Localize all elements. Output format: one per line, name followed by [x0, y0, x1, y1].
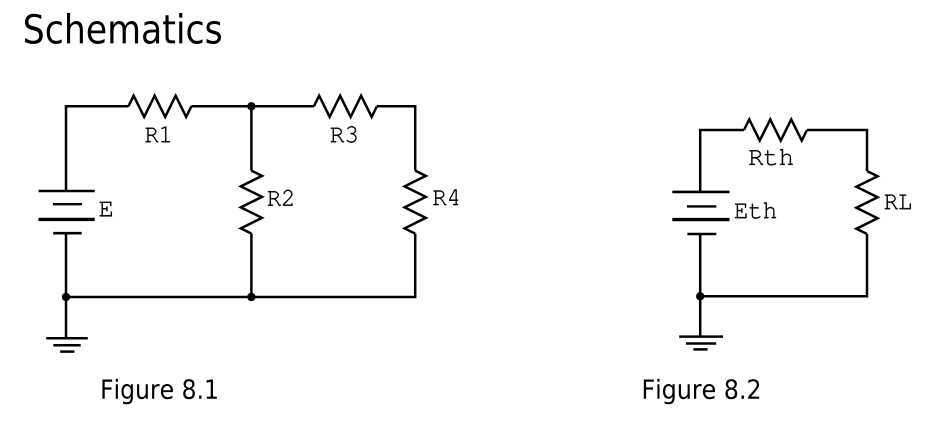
wire: Rth to top-right corner down to RL — [807, 130, 867, 171]
wire: Fig8.1 top-left segment — [66, 106, 128, 191]
label Rth — [749, 149, 793, 165]
wire: RL to bottom-right corner — [700, 234, 867, 296]
resistor R3 — [314, 96, 377, 117]
label R2 — [268, 190, 293, 206]
label RL — [885, 195, 911, 210]
resistor RL — [856, 171, 877, 234]
resistor R4 — [405, 171, 426, 234]
ground Fig8.1 — [46, 338, 88, 351]
caption Figure 8.1 — [102, 379, 216, 405]
label Eth — [735, 203, 776, 219]
resistor Rth — [744, 119, 807, 140]
wire: node A down to R2 — [250, 106, 253, 170]
label R3 — [331, 126, 357, 143]
node: bottom-left junction dot — [62, 293, 70, 301]
node: bottom-center junction dot — [247, 293, 255, 301]
node: Fig8.2 bottom-left junction dot — [696, 292, 704, 300]
wire: R4 to bottom-right corner — [251, 234, 415, 297]
label R1 — [146, 126, 171, 142]
wire: ground stem Fig8.1 — [65, 297, 68, 338]
wire: Fig8.2 top-left segment — [700, 130, 744, 192]
label E — [100, 202, 112, 217]
battery Eth plates — [672, 192, 729, 234]
wire: battery Eth bottom to ground node — [699, 234, 702, 296]
wire: ground stem Fig8.2 — [699, 296, 702, 336]
wire: R1 to node A — [191, 105, 314, 108]
caption Figure 8.2 — [644, 379, 759, 405]
wire: R3 to top-right corner down to R4 — [377, 106, 415, 170]
resistor R1 — [128, 96, 191, 117]
ground Fig8.2 — [679, 337, 723, 350]
label R4 — [433, 189, 458, 205]
title Schematics — [25, 13, 221, 44]
wire: R2 to bottom wire — [250, 234, 253, 297]
wire: bottom-left segment — [66, 296, 251, 299]
resistor R2 — [241, 171, 262, 234]
node A junction dot — [247, 102, 255, 110]
battery E plates — [39, 191, 95, 233]
wire: battery E bottom to ground node — [65, 233, 68, 297]
